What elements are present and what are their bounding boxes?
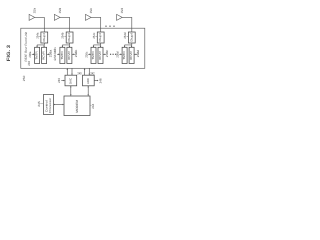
wire switch 2 to TMTR/RCVR split: [62, 43, 69, 47]
svg-text:238d: 238d: [136, 49, 140, 57]
switch box D1 (254a): [41, 32, 48, 43]
leader tick to switch 2: [64, 36, 66, 38]
svg-text:250: 250: [22, 75, 26, 81]
wire antenna 4 feed: [122, 17, 132, 32]
svg-text:254d: 254d: [123, 32, 127, 38]
svg-text:Dupl: Dupl: [129, 33, 133, 42]
wires outer box to box B (up/down arrows): [85, 68, 90, 75]
svg-text:254a: 254a: [35, 32, 39, 38]
TMTR box T1 (222a): [35, 47, 40, 63]
svg-text:242: 242: [90, 71, 94, 75]
wire input arrow into TMTR 2: [57, 53, 59, 55]
svg-text:RCVR: RCVR: [42, 51, 46, 60]
svg-text:DAC: DAC: [68, 78, 72, 84]
svg-text:TMTR: TMTR: [60, 51, 64, 60]
svg-text:TMTR: TMTR: [35, 51, 39, 60]
box A DAC/buffer (240): [65, 75, 77, 86]
wire antenna 1 feed: [35, 17, 45, 32]
wire antenna 2 feed: [60, 17, 70, 32]
antenna ANT4 (252d): [117, 14, 123, 20]
RCVR box R3 (224c): [98, 47, 103, 63]
switch box D3 (254c): [97, 32, 104, 43]
leader tick control label: [40, 102, 43, 104]
svg-text:MODEM: MODEM: [75, 99, 79, 112]
leader tick to switch 4: [127, 36, 129, 38]
svg-text:TMTR: TMTR: [91, 51, 95, 60]
leader tick to switch 1: [39, 36, 41, 38]
wire input arrow into TMTR 4: [119, 53, 121, 55]
box B ADC/buffer (242): [83, 75, 95, 86]
svg-text:254c: 254c: [92, 32, 96, 38]
svg-text:Processor: Processor: [48, 98, 52, 113]
wire control to modem (bidirectional): [54, 104, 63, 106]
switch box D2 (254b): [66, 32, 73, 43]
svg-text:238a: 238a: [49, 49, 53, 57]
svg-text:Dupl: Dupl: [42, 33, 46, 42]
RCVR box R1 (224a): [42, 47, 47, 63]
ellipsis dots between chains 3 and 4: [110, 54, 116, 55]
wire arrow into box A from left: [61, 80, 64, 82]
svg-text:246: 246: [57, 78, 61, 83]
svg-text:FIG. 3: FIG. 3: [6, 45, 12, 62]
svg-text:210: 210: [27, 60, 31, 65]
leader tick modem label: [90, 105, 91, 107]
svg-text:238b: 238b: [74, 49, 78, 57]
wire input arrow into TMTR 1: [32, 53, 34, 55]
svg-text:254b: 254b: [61, 32, 65, 38]
svg-text:236c: 236c: [84, 51, 88, 57]
svg-text:245: 245: [37, 101, 41, 107]
antenna ANT3 (252c): [86, 14, 92, 20]
wire output arrow from RCVR 1: [47, 53, 49, 55]
wire output arrow from RCVR 3: [103, 53, 105, 55]
svg-text:RCVR: RCVR: [98, 51, 102, 60]
wire output arrow from RCVR 2: [72, 53, 74, 55]
wire arrow out of box B to right: [94, 80, 97, 82]
TMTR box T2 (222b): [60, 47, 65, 63]
wire switch 3 to TMTR/RCVR split: [94, 43, 101, 47]
RCVR box R4 (224d): [129, 47, 134, 63]
svg-text:240: 240: [77, 71, 81, 75]
RCVR box R2 (224b): [67, 47, 72, 63]
antenna ANT1 (252a): [29, 14, 35, 20]
modem box (244): [64, 96, 90, 116]
svg-text:TMTR: TMTR: [122, 51, 126, 60]
svg-text:2/236b: 2/236b: [53, 47, 57, 61]
svg-text:248: 248: [99, 78, 103, 83]
svg-text:252b: 252b: [58, 8, 62, 13]
svg-text:238c: 238c: [105, 49, 109, 57]
svg-text:252d: 252d: [120, 8, 124, 13]
wire input arrow into TMTR 3: [88, 53, 90, 55]
wire box B to modem (bidirectional): [87, 87, 89, 95]
svg-text:Dupl: Dupl: [98, 33, 102, 42]
svg-text:244: 244: [91, 103, 95, 108]
wire antenna 3 feed: [91, 17, 101, 32]
svg-text:252c: 252c: [89, 8, 93, 14]
switch box D4 (254d): [128, 32, 135, 43]
wires outer box to box A (up/down arrows): [67, 68, 72, 75]
wire box A to modem (bidirectional): [70, 87, 72, 95]
leader tick to switch 3: [96, 36, 98, 38]
svg-text:RCVR: RCVR: [129, 51, 133, 60]
TMTR box T3 (222c): [91, 47, 96, 63]
svg-text:Dupl: Dupl: [67, 33, 71, 42]
wire switch 4 to TMTR/RCVR split: [125, 43, 132, 47]
wire output arrow from RCVR 4: [134, 53, 136, 55]
svg-text:236a: 236a: [28, 51, 32, 57]
svg-text:ADC: ADC: [86, 78, 90, 84]
ellipsis dots between antennas 3 and 4: [105, 26, 114, 27]
wire switch 1 to TMTR/RCVR split: [37, 43, 44, 47]
TMTR box T4 (222d): [122, 47, 127, 63]
control processor box (246): [44, 95, 54, 115]
svg-text:252a: 252a: [33, 8, 37, 13]
antenna ANT2 (252b): [54, 14, 60, 20]
outer box 250 (antenna-unit enclosure): [21, 28, 145, 68]
svg-text:RCVR: RCVR: [67, 51, 71, 60]
